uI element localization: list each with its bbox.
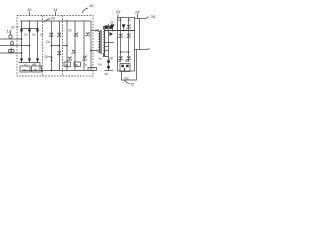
upper diode leg1 — [20, 30, 23, 34]
svg-text:Dd: Dd — [24, 63, 28, 67]
box2 transistor leg1 lower — [119, 34, 123, 38]
load box — [122, 50, 137, 81]
svg-text:6a: 6a — [99, 57, 103, 61]
inverter leg 3 — [83, 21, 85, 71]
box2 mid rail — [118, 30, 135, 32]
bottom bus step — [88, 68, 97, 71]
svg-text:Db: Db — [32, 33, 36, 37]
leg stubs to bus — [21, 21, 23, 29]
box 2 output converter — [118, 18, 135, 72]
mid column vertical — [108, 24, 110, 71]
label 32 leader — [124, 80, 130, 84]
dashed divider 2 — [62, 16, 64, 77]
svg-text:24: 24 — [115, 9, 121, 14]
svg-text:26: 26 — [94, 29, 99, 33]
bottom bus — [22, 70, 97, 72]
upper switch inv leg34 — [86, 32, 90, 36]
box2 transistor leg2 upper — [127, 25, 131, 29]
lower switch legB — [57, 51, 61, 55]
lower diode leg2 — [28, 59, 31, 63]
boxed labels sec3 — [64, 62, 71, 67]
rectifier leg 2 — [29, 29, 31, 63]
svg-text:34: 34 — [151, 14, 156, 19]
svg-text:28: 28 — [134, 10, 140, 15]
source coil A — [9, 35, 12, 38]
svg-text:10: 10 — [27, 7, 32, 12]
transformer primary winding — [99, 31, 100, 53]
svg-text:2b: 2b — [68, 29, 72, 33]
box2 transistor leg2 lower — [127, 34, 131, 38]
source coil B — [10, 42, 13, 45]
svg-text:20: 20 — [50, 16, 56, 21]
lower diode leg3 — [36, 59, 39, 63]
svg-text:32: 32 — [131, 83, 135, 87]
box2 leg dots + mid wire — [121, 51, 129, 53]
svg-text:4b: 4b — [128, 18, 132, 22]
phase junction dots — [21, 38, 23, 40]
mid rails to box2 — [104, 30, 118, 32]
node dot on bus — [29, 20, 31, 22]
label 20 leader — [44, 19, 50, 23]
top DC bus — [20, 20, 91, 22]
bridge output wires to transformer — [91, 30, 98, 32]
rectifier leg 1 — [21, 29, 23, 63]
svg-text:4a: 4a — [118, 18, 122, 22]
svg-text:3b: 3b — [75, 63, 79, 67]
transformer secondary winding — [103, 29, 104, 56]
lower switch inv legs — [68, 57, 72, 61]
box2 leg1 — [120, 18, 122, 63]
svg-text:1b: 1b — [34, 68, 38, 72]
secondary top wire — [103, 27, 108, 30]
junction dots top rail — [21, 28, 23, 30]
phase wire A — [0, 38, 22, 40]
rectifier leg 3 — [37, 29, 39, 63]
svg-text:28: 28 — [108, 57, 113, 61]
H-bridge leg A — [51, 21, 53, 71]
svg-text:Ro: Ro — [125, 76, 129, 80]
source coil C — [8, 49, 11, 52]
svg-text:30: 30 — [105, 72, 109, 76]
boxed label 1 — [20, 66, 30, 72]
svg-text:3c: 3c — [84, 63, 88, 67]
upper diode leg3 — [36, 30, 39, 34]
svg-text:18: 18 — [44, 55, 48, 59]
svg-text:2a: 2a — [46, 40, 50, 44]
H-bridge leg B — [59, 21, 61, 71]
lower diode leg1 — [20, 59, 23, 63]
leg A lower dots — [51, 57, 53, 59]
inverter leg 2 — [74, 21, 76, 71]
box2 bottom component box — [120, 64, 130, 72]
svg-text:5a: 5a — [117, 59, 121, 63]
secondary bottom wire — [103, 53, 108, 57]
svg-text:30: 30 — [11, 26, 15, 30]
inverter leg 4 — [90, 21, 92, 71]
svg-text:22: 22 — [110, 21, 114, 25]
svg-text:3a: 3a — [65, 63, 69, 67]
svg-text:6b: 6b — [99, 63, 103, 67]
secondary dark blocks — [105, 26, 108, 29]
rectifier bottom rail — [19, 62, 41, 64]
svg-text:1a: 1a — [22, 68, 26, 72]
dashed divider 1 — [42, 16, 44, 77]
box2 lower symbols — [119, 56, 123, 60]
bridge mid wire — [52, 45, 60, 47]
svg-text:14: 14 — [53, 7, 58, 12]
box2 leg2 — [128, 18, 130, 63]
upper switch legB — [57, 33, 61, 37]
arrow diode — [110, 32, 114, 36]
rectifier top rail — [22, 28, 38, 30]
svg-text:5b: 5b — [125, 59, 129, 63]
upper switch inv leg2 — [74, 33, 78, 37]
dashed box 10 (input converter enclosure) — [17, 16, 93, 77]
upper diode leg2 — [28, 30, 31, 34]
secondary tap wire — [105, 46, 109, 48]
upper switch legA — [49, 33, 53, 37]
boxed label 2 — [32, 66, 42, 72]
phase wire B — [0, 45, 30, 47]
output top wire — [135, 18, 147, 20]
transformer core — [99, 30, 101, 54]
svg-text:Dc: Dc — [40, 33, 44, 37]
phase wire C — [0, 52, 22, 54]
inverter leg 1 — [66, 21, 68, 71]
svg-text:16: 16 — [89, 3, 94, 8]
output mid wire — [135, 49, 148, 51]
svg-text:Da: Da — [24, 33, 28, 37]
